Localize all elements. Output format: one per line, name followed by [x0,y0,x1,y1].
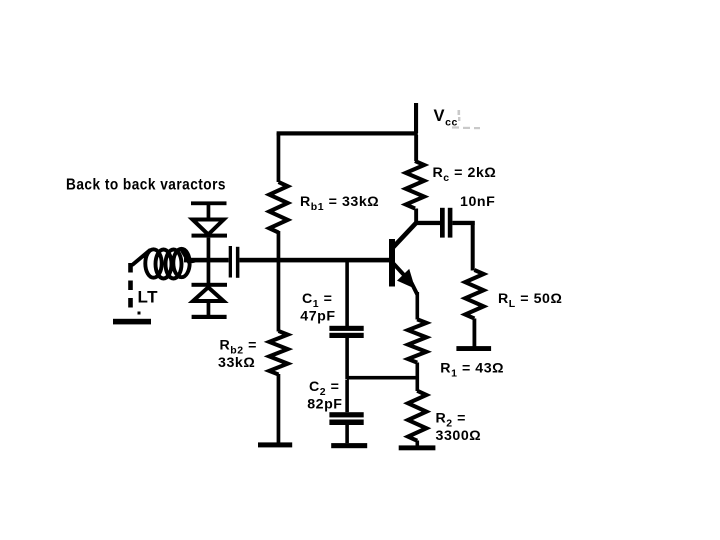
svg-text:82pF: 82pF [307,397,342,413]
svg-text:Vcc: Vcc [434,107,458,129]
ground (RL) [456,346,491,351]
series coupling capacitor right plate [236,247,240,278]
svg-text:3300Ω: 3300Ω [436,428,482,444]
wire: R2 to ground [416,441,420,446]
svg-text:Back to back varactors: Back to back varactors [66,177,226,194]
svg-text:R2 =: R2 = [436,411,467,430]
svg-text:C1 =: C1 = [302,291,333,310]
capacitor C1 top plate [329,326,363,331]
ground (Rb2) [258,442,292,447]
resistor Rb2 [269,331,287,375]
resistor Rc [406,161,424,209]
wire: base node down to C1 [345,262,349,326]
wire: R1 to junction [416,363,420,392]
resistor R1 [408,319,426,362]
ground (C2) [331,443,367,448]
top supply rail [277,131,418,135]
inductor LT coil [133,249,194,279]
svg-text:10nF: 10nF [460,194,495,210]
varactor D1 cathode bar [192,234,228,238]
capacitor 10nF right plate [448,208,453,238]
svg-text:C2 =: C2 = [309,379,340,398]
wire: collector node to 10nF cap [415,221,440,225]
svg-text:33kΩ: 33kΩ [218,355,255,371]
series coupling capacitor left plate [229,246,232,278]
varactor D1 top stub [207,204,211,219]
wire: RL to ground [473,319,477,347]
transistor Q1 collector lead [392,223,417,249]
svg-text:Rb1 = 33kΩ: Rb1 = 33kΩ [300,194,379,213]
svg-text:LT: LT [138,288,159,307]
wire: inductor to series capacitor (through varactor node) [184,258,229,263]
varactor D2 bottom stub [207,303,211,316]
wire: Rb1 to base node [277,231,281,260]
resistor RL [465,270,483,319]
varactor D1 (anode triangle, pointing down) [193,220,224,235]
varactor D2 (anode triangle, pointing up) [193,287,224,301]
wire: rail to Rc [414,135,418,161]
wire: D1 cathode to input node [207,238,211,259]
junction dot near LT ground [138,312,141,315]
varactor D1 top terminal bar [191,201,227,205]
wire: C2 to ground [345,425,349,443]
wire: corner down to RL [471,221,475,271]
transistor Q1 emitter lead [393,263,418,295]
capacitor C1 bottom plate [329,333,363,338]
wire: emitter to R1 [416,292,420,320]
transistor Q1 emitter arrow [399,271,413,286]
wire: capacitor to transistor base [239,258,389,263]
capacitor 10nF left plate [440,208,445,238]
svg-text:Rb2 =: Rb2 = [220,338,257,357]
svg-text:R1 = 43Ω: R1 = 43Ω [440,361,504,380]
capacitor C2 bottom plate [329,420,363,426]
varactor D2 cathode bar [192,283,228,287]
ground (R2) [399,445,436,450]
capacitor C2 top plate [329,412,363,417]
Vcc stub wire [414,103,418,133]
svg-text:Rc = 2kΩ: Rc = 2kΩ [433,165,497,184]
wire: Rb2 to ground [277,374,281,443]
varactor D2 bottom terminal bar [192,315,227,319]
wire: C1 to midpoint node [345,338,349,379]
resistor Rb1 [269,182,287,233]
wire: input node to D2 cathode [207,262,211,284]
wire: dashed lead below inductor (LT) [128,263,133,311]
ground (LT) [113,319,151,325]
wire: midpoint node to R1/R2 junction [347,376,417,380]
wire: rail to Rb1 [277,133,281,182]
wire: base node down to Rb2 [277,262,281,332]
resistor R2 [408,391,426,441]
wire: midpoint to C2 [345,380,349,413]
faint artifact marks right of Vcc [452,110,480,129]
wire: 10nF to RL corner [452,221,474,225]
transistor Q1 base bar [389,239,395,287]
svg-text:47pF: 47pF [300,309,335,325]
wire: Rc to collector node [414,209,418,224]
svg-text:RL = 50Ω: RL = 50Ω [498,291,562,310]
